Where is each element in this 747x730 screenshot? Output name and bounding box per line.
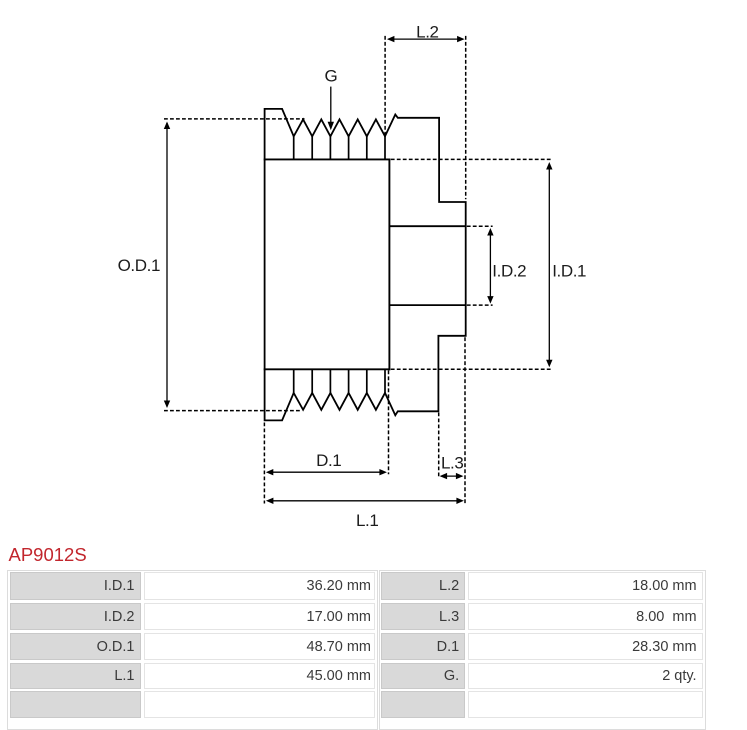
table row G value [468, 663, 702, 688]
table row L.1 label [10, 663, 141, 688]
table clipped row 5 label right [381, 691, 465, 718]
svg-text:D.1: D.1 [316, 451, 341, 470]
svg-text:L.3: L.3 [441, 454, 463, 473]
O.D.1 extension dashed top [164, 118, 305, 120]
I.D.1 extension dashed bottom [391, 368, 551, 370]
table row D.1 value [468, 633, 702, 660]
O.D.1 dimension arrow [164, 122, 170, 409]
table row I.D.2 label [10, 603, 141, 630]
svg-text:I.D.1: I.D.1 [552, 261, 586, 280]
table row O.D.1 value [144, 633, 376, 660]
L.2 extension dashed left [384, 36, 386, 138]
groove root slots top [294, 136, 385, 160]
pulley outer profile outline [265, 109, 466, 421]
bore step line upper [389, 225, 465, 227]
hub right edge line [388, 159, 390, 371]
hub bottom face line [264, 368, 391, 370]
I.D.2 extension dashed top [467, 225, 493, 227]
table row L.2 value [468, 572, 702, 599]
svg-text:O.D.1: O.D.1 [118, 256, 160, 275]
L.1 extension dashed right [464, 337, 466, 503]
I.D.2 extension dashed bottom [467, 304, 493, 306]
D.1 extension dashed left [263, 423, 265, 504]
svg-text:L.2: L.2 [416, 22, 438, 41]
table row L.1 value [144, 663, 376, 688]
I.D.2 dimension arrow [487, 228, 493, 304]
table row O.D.1 label [10, 633, 141, 660]
table row L.3 value [468, 603, 702, 630]
L.2 dimension arrow [387, 36, 465, 42]
svg-text:G: G [324, 66, 337, 85]
L.2 extension dashed right [465, 36, 467, 199]
I.D.1 dimension arrow [546, 162, 552, 367]
spec table right outer border [379, 570, 706, 730]
svg-text:I.D.2: I.D.2 [492, 261, 526, 280]
D.1 dimension arrow [266, 469, 387, 475]
table row L.2 label [381, 572, 465, 599]
O.D.1 extension dashed bottom [164, 410, 301, 412]
I.D.1 extension dashed top [391, 158, 551, 160]
table row L.3 label [381, 603, 465, 630]
hub top face line [264, 158, 391, 160]
L.1 dimension arrow [266, 498, 464, 504]
part number heading AP9012S [9, 544, 87, 566]
G leader arrow [328, 87, 334, 131]
table row G label [381, 663, 465, 688]
table clipped row 5 value left [144, 691, 376, 718]
table row D.1 label [381, 633, 465, 660]
svg-text:L.1: L.1 [356, 511, 378, 530]
groove root slots bottom [294, 369, 385, 393]
L.3 dimension arrow [440, 473, 464, 479]
table row I.D.1 label [10, 572, 141, 599]
bore step line lower [389, 304, 465, 306]
L.3 extension dashed left [438, 413, 440, 479]
spec table left outer border [7, 570, 378, 730]
table row I.D.2 value [144, 603, 376, 630]
D.1 extension dashed right [388, 370, 390, 474]
pulley cross-section technical drawing [0, 0, 747, 540]
table row I.D.1 value [144, 572, 376, 599]
table clipped row 5 value right [468, 691, 702, 718]
table clipped row 5 label left [10, 691, 141, 718]
